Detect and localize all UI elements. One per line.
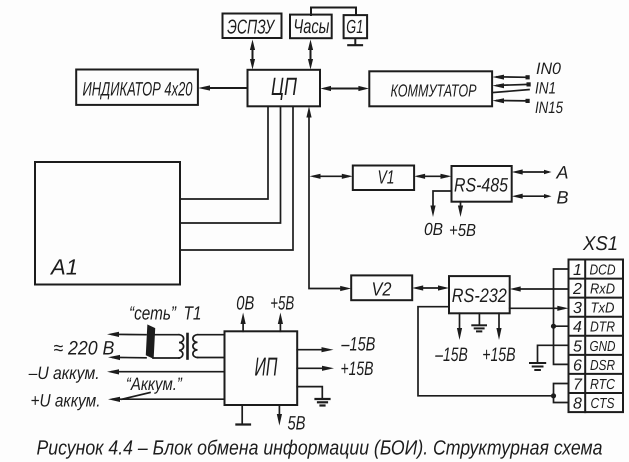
- svg-text:8: 8: [573, 396, 582, 413]
- core: [186, 334, 189, 359]
- transformer T1: [147, 326, 225, 359]
- svg-text:5В: 5В: [288, 413, 306, 435]
- svg-text:IN0: IN0: [536, 60, 562, 78]
- svg-text:ЭСПЗУ: ЭСПЗУ: [227, 16, 276, 38]
- svg-text:G1: G1: [346, 17, 363, 38]
- wire RxD to RS-232 arrow: [510, 286, 569, 291]
- block IP power supply (ИП): [225, 331, 298, 405]
- svg-text:3: 3: [573, 300, 582, 317]
- svg-text:+5В: +5В: [270, 293, 294, 315]
- svg-text:XS1: XS1: [582, 233, 618, 255]
- block V2: [351, 275, 412, 300]
- svg-text:V1: V1: [378, 168, 395, 189]
- block INDICATOR 4x20: [76, 70, 198, 105]
- wire CPU to A1 line1: [180, 106, 268, 199]
- svg-text:1: 1: [573, 262, 582, 279]
- svg-text:–U аккум.: –U аккум.: [28, 363, 100, 383]
- svg-text:RTC: RTC: [590, 377, 615, 393]
- block KOMMUTATOR (КОММУТАТОР): [369, 71, 492, 106]
- wire CPU to KOMMUTATOR double arrow: [320, 86, 369, 91]
- wire RS-232 to TxD arrow: [510, 306, 569, 311]
- svg-text:RxD: RxD: [590, 282, 615, 298]
- svg-text:0В: 0В: [424, 219, 443, 239]
- block Chasy (Часы): [290, 15, 332, 39]
- oscillator G1: [344, 15, 368, 38]
- svg-text:КОММУТАТОР: КОММУТАТОР: [391, 81, 477, 101]
- svg-text:TxD: TxD: [591, 301, 615, 317]
- svg-text:≈ 220 В: ≈ 220 В: [53, 337, 114, 359]
- wire Chasy to CPU double arrow: [308, 40, 313, 70]
- wire terminal B: [512, 194, 552, 199]
- svg-text:5: 5: [573, 338, 582, 355]
- svg-text:А1: А1: [49, 255, 78, 280]
- block A1: [35, 162, 180, 285]
- wire RS-232 +15V arrow down: [496, 313, 501, 340]
- pin names: [590, 263, 616, 413]
- svg-text:IN1: IN1: [535, 80, 556, 98]
- svg-text:0В: 0В: [236, 293, 254, 315]
- secondary winding: [198, 334, 225, 336]
- svg-text:DSR: DSR: [590, 358, 615, 374]
- svg-text:“сеть”: “сеть”: [129, 304, 177, 325]
- block V1: [353, 166, 414, 191]
- wire RS-485 0V out: [430, 191, 451, 217]
- wire ESPZU to CPU double arrow: [250, 40, 255, 70]
- primary winding loop: [153, 334, 179, 336]
- svg-text:CTS: CTS: [591, 396, 615, 412]
- svg-text:–15В: –15В: [341, 334, 376, 356]
- wire IP -15V out arrow: [297, 347, 333, 352]
- svg-text:RS-232: RS-232: [452, 285, 507, 307]
- svg-text:7: 7: [573, 377, 583, 394]
- svg-text:“Аккум.”: “Аккум.”: [126, 374, 183, 394]
- wire input IN1: [492, 82, 530, 88]
- svg-text:ИП: ИП: [255, 352, 278, 382]
- ground IP bottom chassis T-symbol: [236, 405, 250, 425]
- svg-text:+15В: +15В: [341, 358, 374, 380]
- wire V2 to RS-232 double arrow: [412, 285, 449, 290]
- wire RS-485 +5V out: [458, 202, 463, 217]
- leader Akkum to wire: [122, 393, 150, 400]
- wire Chasy top to G1 top bracket: [311, 8, 356, 16]
- svg-text:Часы: Часы: [293, 16, 329, 38]
- bus CPU to V2 with up arrow: [306, 106, 351, 291]
- svg-text:Т1: Т1: [184, 304, 202, 325]
- connector XS1 body: [569, 260, 624, 413]
- svg-text:DCD: DCD: [590, 263, 616, 279]
- svg-text:–15В: –15В: [435, 344, 468, 366]
- svg-text:V2: V2: [372, 280, 392, 301]
- bus pins 1-4-6 tie: [554, 269, 569, 364]
- wire 220V top arrow: [107, 332, 146, 337]
- junction dot pins 7-8: [551, 393, 556, 398]
- svg-text:DTR: DTR: [590, 320, 615, 336]
- svg-text:А: А: [556, 163, 569, 183]
- wire IP +15V out arrow: [297, 366, 334, 371]
- wire input IN15: [492, 98, 529, 103]
- svg-text:GND: GND: [590, 339, 616, 355]
- svg-text:2: 2: [572, 281, 582, 298]
- wire -U akkum arrow: [107, 369, 225, 374]
- ground RS-232 earth symbol: [472, 313, 486, 331]
- wire input IN0: [492, 75, 529, 80]
- wire V1 to RS-485 double arrow: [414, 174, 451, 179]
- wire bus to V1 double arrow: [310, 174, 353, 179]
- svg-text:В: В: [557, 188, 569, 208]
- svg-text:6: 6: [573, 357, 582, 374]
- wire CPU to INDICATOR arrow: [198, 85, 248, 90]
- wire IP +5V up arrow: [278, 313, 283, 332]
- svg-text:4: 4: [573, 319, 582, 336]
- wire input (middle plain): [492, 90, 529, 93]
- svg-text:ИНДИКАТОР 4х20: ИНДИКАТОР 4х20: [83, 78, 193, 100]
- block ESPZU (ЭСПЗУ): [223, 14, 282, 39]
- svg-text:+5В: +5В: [449, 220, 476, 240]
- svg-text:Рисунок 4.4 – Блок обмена инфо: Рисунок 4.4 – Блок обмена информации (БО…: [37, 437, 603, 460]
- ground IP right earth symbol: [297, 387, 329, 406]
- wire RS-232 to RTC/CTS loop: [418, 307, 554, 396]
- ground pin5 GND: [530, 345, 569, 370]
- wire terminal A: [512, 169, 552, 174]
- wire CPU to A1 line3: [180, 106, 293, 250]
- wire IP 5V down arrow: [277, 405, 282, 426]
- wire IP 0V up arrow: [241, 313, 246, 332]
- svg-text:+15В: +15В: [482, 344, 515, 366]
- svg-text:RS-485: RS-485: [454, 175, 508, 197]
- pin numbers 1-8: [572, 262, 583, 413]
- svg-text:+U аккум.: +U аккум.: [31, 390, 101, 410]
- junction dot pin4: [551, 324, 556, 329]
- bus pins 7-8 tie: [554, 384, 569, 403]
- svg-text:ЦП: ЦП: [271, 73, 298, 101]
- wire RS-232 -15V arrow down: [457, 313, 462, 340]
- wire CPU to A1 line2: [180, 106, 281, 223]
- ground G1 chassis T-symbol: [348, 39, 362, 46]
- wire 220V bottom arrow: [108, 355, 146, 360]
- block RS-485: [452, 166, 512, 202]
- block RS-232: [449, 276, 510, 313]
- block CPU (ЦП): [248, 70, 321, 107]
- wire +U akkum arrow: [108, 397, 225, 402]
- svg-text:IN15: IN15: [535, 99, 564, 117]
